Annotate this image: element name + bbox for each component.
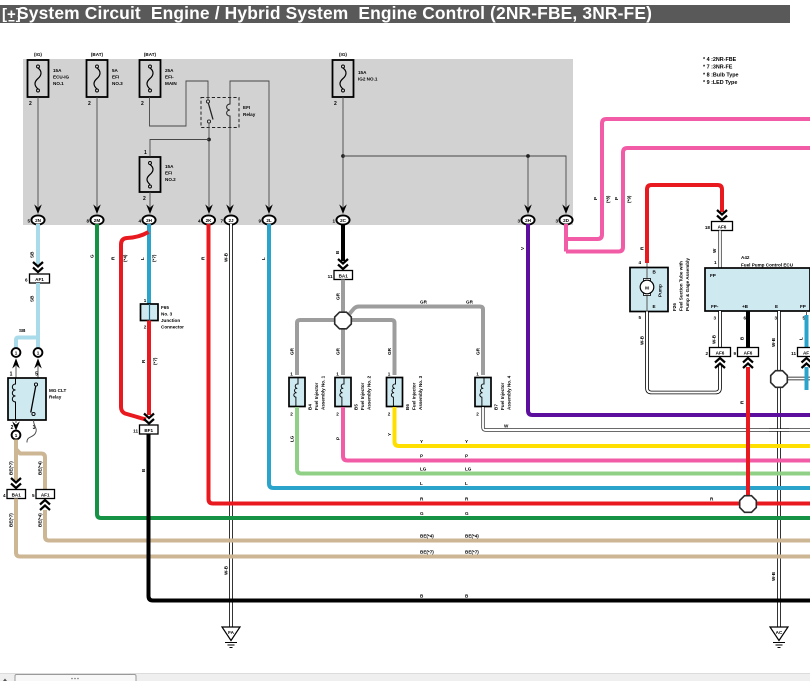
junction octagon (R) xyxy=(740,496,757,513)
svg-text:BE(*7): BE(*7) xyxy=(9,461,14,475)
wire fuse F4 to 2C xyxy=(339,97,347,214)
svg-text:2: 2 xyxy=(705,351,708,356)
svg-text:MAIN: MAIN xyxy=(165,81,177,86)
svg-text:W-B: W-B xyxy=(771,337,776,347)
svg-text:B4: B4 xyxy=(308,404,313,410)
svg-text:Relay: Relay xyxy=(243,112,256,117)
svg-text:9: 9 xyxy=(258,219,261,224)
svg-text:Fuel Injector: Fuel Injector xyxy=(500,382,505,410)
svg-text:(*8): (*8) xyxy=(606,195,611,203)
svg-text:6: 6 xyxy=(743,316,746,321)
injector B7 Fuel Injector Assembly No. 4 xyxy=(475,372,512,417)
svg-text:11: 11 xyxy=(133,429,138,434)
svg-text:3: 3 xyxy=(517,219,520,224)
wire BE(*7) to horizontal xyxy=(9,499,810,557)
svg-text:* 4 :2NR-FBE: * 4 :2NR-FBE xyxy=(703,57,737,63)
legend note xyxy=(703,57,739,86)
wire W from AF6 to A42 xyxy=(712,231,720,269)
node 2C xyxy=(332,215,349,224)
wire L from 2L to horizontal xyxy=(261,224,810,488)
svg-text:M: M xyxy=(645,286,649,291)
svg-text:AF6: AF6 xyxy=(744,351,753,356)
svg-text:9: 9 xyxy=(733,351,736,356)
connector AF1 (BE) xyxy=(32,490,55,511)
svg-text:11: 11 xyxy=(791,351,796,356)
svg-text:BE(*7): BE(*7) xyxy=(465,550,479,555)
svg-text:System Circuit Engine / Hybri: System Circuit Engine / Hybrid System En… xyxy=(17,3,652,23)
wire relay pin5 up arrow xyxy=(34,358,42,378)
svg-text:15A: 15A xyxy=(358,70,367,75)
connector BF1 xyxy=(133,414,158,435)
wire P from B5 xyxy=(336,407,810,461)
svg-text:15A: 15A xyxy=(165,164,174,169)
svg-text:NO.1: NO.1 xyxy=(53,81,64,86)
engine room junction block (shaded area) xyxy=(23,59,573,225)
connector AF6 (FP-) xyxy=(705,348,730,369)
svg-text:15A: 15A xyxy=(53,68,62,73)
svg-text:(BAT): (BAT) xyxy=(91,52,104,57)
node 2H xyxy=(138,215,155,224)
wire SB from 2N to AF1 xyxy=(30,224,39,266)
svg-text:MG CLT: MG CLT xyxy=(49,388,66,393)
wire GR from BA1 to junction xyxy=(336,280,344,314)
svg-text:Y: Y xyxy=(420,439,423,444)
svg-text:P: P xyxy=(593,197,598,200)
wire B from A42 +B xyxy=(740,311,749,347)
wire fuse F5 to 2H xyxy=(146,192,154,214)
svg-text:BE(*4): BE(*4) xyxy=(465,534,479,539)
svg-text:Fuel Injector: Fuel Injector xyxy=(360,382,365,410)
svg-text:P: P xyxy=(420,454,423,459)
svg-text:2N: 2N xyxy=(35,218,42,223)
svg-text:W: W xyxy=(712,248,717,253)
svg-text:B5: B5 xyxy=(354,404,359,410)
svg-text:G: G xyxy=(465,511,469,516)
wire fuse F2 to 2M xyxy=(93,97,101,214)
svg-text:(*9): (*9) xyxy=(627,195,632,203)
svg-text:2: 2 xyxy=(143,196,146,202)
svg-text:A42: A42 xyxy=(741,255,750,260)
svg-text:BA1: BA1 xyxy=(12,493,22,498)
fuse F4 15A IG2 NO.1 xyxy=(333,52,378,107)
footer scrollbar xyxy=(0,674,810,681)
svg-text:AF: AF xyxy=(803,351,809,356)
svg-text:2: 2 xyxy=(388,412,391,417)
junction octagon (GR) xyxy=(335,312,352,329)
svg-text:L: L xyxy=(420,481,423,486)
svg-text:2M: 2M xyxy=(94,218,101,223)
wire W-B from 2J to ground FA xyxy=(224,224,232,627)
wire R pump feed xyxy=(640,185,723,263)
svg-text:P: P xyxy=(465,454,468,459)
svg-text:F26: F26 xyxy=(672,303,677,311)
svg-text:GR: GR xyxy=(466,300,474,305)
injector B4 Fuel Injector Assembly No. 1 xyxy=(289,372,326,417)
junction connector F65 xyxy=(141,298,185,330)
wire relay pin1 up arrow xyxy=(12,358,20,378)
wire R from F65 to BF1 xyxy=(141,321,158,416)
svg-text:W-B: W-B xyxy=(712,334,717,344)
svg-text:1: 1 xyxy=(15,351,18,356)
wire R from AF6 to junction xyxy=(710,367,748,504)
svg-text:W-B: W-B xyxy=(224,565,229,575)
svg-text:LG: LG xyxy=(290,435,295,442)
wire LG from B4 xyxy=(290,407,810,474)
connector BA1 (injectors) xyxy=(328,259,353,280)
wire BE right branch xyxy=(16,449,45,490)
svg-text:EFI: EFI xyxy=(112,75,119,80)
svg-text:+B: +B xyxy=(742,304,749,309)
svg-text:1: 1 xyxy=(144,150,147,156)
svg-text:5: 5 xyxy=(32,493,35,498)
svg-text:2: 2 xyxy=(334,101,337,107)
svg-text:(*7): (*7) xyxy=(153,357,158,365)
svg-text:Fuel Suction Tube with: Fuel Suction Tube with xyxy=(679,261,684,311)
svg-text:1: 1 xyxy=(144,298,147,303)
wire B from BF1 to horizontal xyxy=(141,434,810,601)
svg-text:BA1: BA1 xyxy=(339,274,349,279)
svg-text:AC: AC xyxy=(776,630,783,635)
svg-text:(IG): (IG) xyxy=(339,52,347,57)
svg-text:(IG): (IG) xyxy=(34,52,42,57)
svg-text:1: 1 xyxy=(476,372,479,377)
wire BE left branch down xyxy=(9,440,17,481)
wire W-B from A42 FP- xyxy=(712,311,721,347)
svg-text:1: 1 xyxy=(388,372,391,377)
svg-text:5: 5 xyxy=(638,315,641,320)
svg-text:L: L xyxy=(261,257,266,260)
svg-text:5: 5 xyxy=(27,219,30,224)
fuse F2 5A EFI NO.3 xyxy=(87,52,124,107)
svg-text:SB: SB xyxy=(30,251,35,258)
fuse F3 25A EFI-MAIN xyxy=(140,52,178,107)
fuse F1 15A ECU-IG NO.1 xyxy=(28,52,70,107)
injector B6 Fuel Injector Assembly No. 3 xyxy=(387,372,424,417)
wire L from A42 FP xyxy=(799,311,807,347)
svg-text:GR: GR xyxy=(387,347,392,355)
wire crossing patches (horizontals continuous) xyxy=(222,415,789,601)
svg-text:2: 2 xyxy=(336,412,339,417)
svg-text:P: P xyxy=(614,197,619,200)
svg-text:W-B: W-B xyxy=(640,335,645,345)
ground FA xyxy=(222,627,240,648)
svg-text:* 8 :Bulb Type: * 8 :Bulb Type xyxy=(703,73,739,79)
svg-text:EFI: EFI xyxy=(243,105,250,110)
wire L from 2H to F65 xyxy=(140,224,157,304)
ECU A42 Fuel Pump Control ECU xyxy=(705,255,810,321)
svg-text:AF6: AF6 xyxy=(716,351,725,356)
wire B from 2C to BA1 xyxy=(335,224,343,261)
svg-text:3: 3 xyxy=(555,219,558,224)
wire switch node to fuse F5 xyxy=(150,140,209,157)
svg-text:(*7): (*7) xyxy=(152,254,157,262)
svg-text:4: 4 xyxy=(198,219,201,224)
svg-text:* 9 :LED Type: * 9 :LED Type xyxy=(703,80,737,86)
svg-text:1: 1 xyxy=(37,351,40,356)
svg-text:2: 2 xyxy=(11,425,14,431)
svg-text:Y: Y xyxy=(387,433,392,436)
svg-text:BE(*7): BE(*7) xyxy=(9,513,14,527)
svg-text:1: 1 xyxy=(10,372,13,378)
svg-text:SB: SB xyxy=(30,295,35,302)
svg-text:3: 3 xyxy=(774,316,777,321)
relay pin3 pigtail xyxy=(27,420,36,443)
svg-text:2: 2 xyxy=(290,412,293,417)
svg-text:2: 2 xyxy=(88,101,91,107)
wire SB AF1 to relay terminals xyxy=(16,283,38,348)
svg-text:FP: FP xyxy=(800,304,806,309)
svg-text:EFI-: EFI- xyxy=(165,75,174,80)
svg-text:LG: LG xyxy=(465,467,472,472)
svg-text:BF1: BF1 xyxy=(144,428,153,433)
injector B5 Fuel Injector Assembly No. 2 xyxy=(335,372,372,417)
svg-text:Y: Y xyxy=(465,439,468,444)
svg-text:Relay: Relay xyxy=(49,395,62,400)
wire EFI relay switch to 2K xyxy=(205,123,213,214)
wire GR junction to B5 xyxy=(336,327,344,375)
wire R fork from 2H xyxy=(111,232,149,420)
wire EFI relay coil to 2J xyxy=(226,128,234,215)
svg-text:2D: 2D xyxy=(563,218,570,223)
svg-text:Assembly No. 2: Assembly No. 2 xyxy=(367,375,372,410)
relay MG CLT xyxy=(8,372,66,432)
terminal circle 1 (right) xyxy=(34,348,43,357)
wire L below AF6 xyxy=(805,367,809,390)
node 2M xyxy=(86,215,103,224)
svg-text:EFI: EFI xyxy=(165,171,172,176)
fuse F5 15A EFI NO.2 xyxy=(140,150,177,202)
svg-text:Assembly No. 3: Assembly No. 3 xyxy=(418,375,423,410)
svg-text:FA: FA xyxy=(228,630,235,635)
wire V from 2H to horizontal xyxy=(520,224,810,415)
wire W-B branch right xyxy=(786,377,810,381)
svg-text:BE(*4): BE(*4) xyxy=(420,534,434,539)
svg-text:Assembly No. 4: Assembly No. 4 xyxy=(507,375,512,410)
wire G from 2M xyxy=(90,224,810,518)
svg-text:4: 4 xyxy=(138,219,141,224)
node 2H right xyxy=(517,215,534,224)
svg-text:AF6: AF6 xyxy=(718,225,727,230)
wire P inner loop xyxy=(566,148,810,252)
wire W-B pump return loop xyxy=(640,312,721,393)
wire W from B7 xyxy=(483,407,810,430)
svg-text:(*4): (*4) xyxy=(123,254,128,262)
svg-text:E: E xyxy=(653,304,656,309)
wire fuse F3 to EFI relay switch xyxy=(150,81,209,126)
svg-text:GR: GR xyxy=(290,347,295,355)
svg-text:NO.3: NO.3 xyxy=(112,81,123,86)
svg-text:IG2 NO.1: IG2 NO.1 xyxy=(358,77,378,82)
wire Y from B6 xyxy=(387,407,810,446)
terminal circle 1 (bottom) xyxy=(12,431,21,440)
svg-text:G: G xyxy=(420,511,424,516)
svg-text:B7: B7 xyxy=(494,404,499,410)
svg-text:1: 1 xyxy=(714,260,717,265)
svg-text:B6: B6 xyxy=(405,404,410,410)
svg-text:1: 1 xyxy=(290,372,293,377)
svg-text:4: 4 xyxy=(638,260,641,265)
wire P from 2D xyxy=(564,224,568,252)
title bar xyxy=(0,3,790,23)
svg-text:ECU-IG: ECU-IG xyxy=(53,75,70,80)
EFI relay (dashed) xyxy=(201,98,256,128)
node 2J xyxy=(220,215,237,224)
svg-text:FP: FP xyxy=(710,273,716,278)
svg-text:* 7 :3NR-FE: * 7 :3NR-FE xyxy=(703,65,733,71)
svg-text:11: 11 xyxy=(328,274,333,279)
svg-text:2L: 2L xyxy=(266,218,272,223)
node 2K xyxy=(198,215,215,224)
terminal circle 1 (left) xyxy=(12,348,21,357)
svg-text:AF1: AF1 xyxy=(35,277,44,282)
svg-text:GR: GR xyxy=(476,347,481,355)
svg-text:No. 3: No. 3 xyxy=(161,312,173,317)
connector AF6 (+B) xyxy=(733,348,758,369)
svg-text:L: L xyxy=(140,257,145,260)
svg-text:AF1: AF1 xyxy=(41,493,50,498)
svg-text:Pump: Pump xyxy=(658,284,663,297)
svg-text:2J: 2J xyxy=(228,218,234,223)
svg-text:L: L xyxy=(799,337,804,340)
connector BA1 (BE) xyxy=(3,478,26,499)
svg-text:L: L xyxy=(465,481,468,486)
junction octagon (W-B) xyxy=(771,371,788,388)
svg-text:SB: SB xyxy=(19,328,26,333)
svg-text:NO.2: NO.2 xyxy=(165,177,176,182)
svg-text:2H: 2H xyxy=(146,218,153,223)
svg-text:2: 2 xyxy=(141,101,144,107)
connector AF6 (pump feed) xyxy=(705,210,733,231)
svg-text:2K: 2K xyxy=(206,218,213,223)
wire fuse F4 branch to 2H2 and 2D xyxy=(343,154,570,214)
svg-text:GR: GR xyxy=(336,347,341,355)
pump F26 Fuel Suction Tube with Pump and Gage Assembly xyxy=(630,258,690,320)
svg-text:2: 2 xyxy=(476,412,479,417)
svg-text:25A: 25A xyxy=(165,68,174,73)
svg-text:E: E xyxy=(775,304,778,309)
svg-text:FP-: FP- xyxy=(711,304,719,309)
svg-text:4: 4 xyxy=(3,493,6,498)
svg-text:BE(*4): BE(*4) xyxy=(38,461,43,475)
wire GR junction to B4 xyxy=(290,320,337,375)
wire EFI relay coil to 2L xyxy=(230,81,273,214)
wire fuse F1 to 2N xyxy=(34,97,42,214)
ground AC xyxy=(770,627,788,648)
svg-text:5: 5 xyxy=(35,372,38,378)
svg-text:7: 7 xyxy=(220,219,223,224)
wire GR junction to B7 xyxy=(349,300,484,376)
svg-text:W: W xyxy=(504,424,509,429)
svg-text:3: 3 xyxy=(713,316,716,321)
svg-text:BE(*7): BE(*7) xyxy=(420,550,434,555)
svg-text:GR: GR xyxy=(420,300,428,305)
wire BE(*4) to horizontal xyxy=(38,510,810,541)
svg-text:(BAT): (BAT) xyxy=(144,52,157,57)
connector AF1 (SB) xyxy=(25,262,50,283)
svg-text:W-B: W-B xyxy=(224,252,229,262)
svg-text:1: 1 xyxy=(15,433,18,438)
svg-text:1: 1 xyxy=(332,219,335,224)
svg-text:GR: GR xyxy=(336,292,341,300)
svg-text:F65: F65 xyxy=(161,305,169,310)
svg-text:6: 6 xyxy=(25,278,28,283)
svg-text:2: 2 xyxy=(144,325,147,330)
svg-text:2C: 2C xyxy=(340,218,347,223)
svg-text:P: P xyxy=(336,437,341,440)
svg-text:Fuel Pump Control ECU: Fuel Pump Control ECU xyxy=(741,263,794,268)
wire R from 2K to horizontal xyxy=(201,224,810,504)
svg-text:Junction: Junction xyxy=(161,318,180,323)
wire P outer loop xyxy=(566,119,810,239)
node 2L xyxy=(258,215,275,224)
svg-text:2H: 2H xyxy=(525,218,532,223)
svg-text:BE(*4): BE(*4) xyxy=(38,513,43,527)
connector AF6 (FP) xyxy=(791,348,810,369)
svg-text:1: 1 xyxy=(336,372,339,377)
horizontal wire labels xyxy=(420,439,479,599)
wire GR junction to B6 xyxy=(350,320,395,375)
svg-text:8: 8 xyxy=(86,219,89,224)
svg-text:Fuel Injector: Fuel Injector xyxy=(314,382,319,410)
svg-text:Connector: Connector xyxy=(161,325,184,330)
svg-text:W-B: W-B xyxy=(771,571,776,581)
svg-text:Assembly No. 1: Assembly No. 1 xyxy=(321,375,326,410)
svg-text:Pump & Gage Assembly: Pump & Gage Assembly xyxy=(685,258,690,311)
svg-text:LG: LG xyxy=(420,467,427,472)
svg-text:5A: 5A xyxy=(112,68,119,73)
wire W-B from A42 E to ground AC xyxy=(771,311,779,627)
svg-text:18: 18 xyxy=(705,225,711,230)
wire relay pin2 to circle xyxy=(12,420,20,431)
node 2D xyxy=(555,215,572,224)
svg-text:Fuel Injector: Fuel Injector xyxy=(412,382,417,410)
svg-text:G: G xyxy=(90,254,95,258)
node 2N xyxy=(27,215,44,224)
svg-text:2: 2 xyxy=(29,101,32,107)
